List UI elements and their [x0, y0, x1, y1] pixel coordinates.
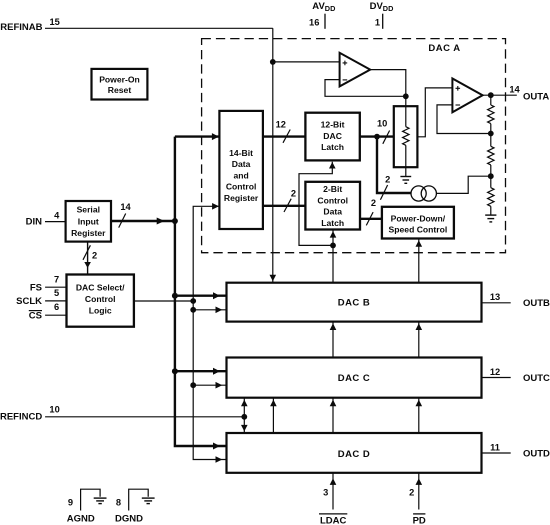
svg-text:DIN: DIN	[26, 217, 43, 228]
junction dot REFINCD node	[241, 414, 247, 420]
svg-text:7: 7	[54, 274, 59, 284]
wire serial register to select logic 2	[83, 242, 97, 275]
svg-text:AGND: AGND	[67, 513, 95, 524]
wire U1 output	[370, 70, 406, 97]
svg-text:10: 10	[49, 404, 59, 414]
wire REFINCD to DAC C	[241, 398, 248, 417]
junction dot current source tap	[488, 173, 494, 179]
node FS pin 7	[30, 274, 67, 293]
svg-text:DGND: DGND	[115, 513, 143, 524]
bus control latch to power-down pin 2	[360, 198, 382, 225]
node PD-bar pin 2	[409, 473, 426, 525]
node AGND pin 9	[67, 489, 107, 524]
svg-text:4: 4	[54, 211, 60, 221]
svg-text:2-Bit: 2-Bit	[323, 184, 342, 194]
svg-text:Data: Data	[232, 159, 251, 169]
bus data to DAC B	[175, 292, 227, 299]
svg-text:Reset: Reset	[108, 85, 132, 95]
junction dot LDAC node	[330, 243, 336, 249]
block 12-Bit DAC Latch	[305, 113, 359, 161]
svg-text:1: 1	[375, 18, 380, 28]
wire PD stub B to C	[416, 322, 423, 358]
node SCLK pin 5	[16, 288, 66, 307]
svg-text:3: 3	[323, 488, 328, 498]
svg-text:10: 10	[377, 119, 387, 129]
junction dot select node	[190, 298, 196, 304]
svg-text:16: 16	[309, 18, 319, 28]
svg-text:Control: Control	[317, 195, 348, 205]
junction dot node REFA	[270, 59, 276, 65]
block DAC D	[227, 433, 482, 473]
svg-text:14-Bit: 14-Bit	[229, 148, 253, 158]
svg-text:14: 14	[120, 202, 131, 212]
svg-text:and: and	[233, 170, 248, 180]
svg-text:OUTB: OUTB	[523, 298, 550, 309]
wire U2 noninverting input from R1 tap	[417, 88, 452, 137]
power pin AVDD 16	[309, 1, 335, 29]
op-amp U1 reference buffer	[340, 53, 371, 87]
wire U2 inverting feedback	[437, 105, 491, 134]
bus 12-bit register to DAC latch	[263, 120, 306, 143]
block Power-On Reset	[92, 69, 148, 100]
bus DAC latch to resistor string pin 10	[360, 119, 394, 144]
svg-text:OUTA: OUTA	[523, 92, 549, 103]
node OUTA pin 14	[509, 84, 549, 102]
junction dot U1 output node	[403, 93, 409, 99]
bus 2-bit register to control latch	[263, 189, 306, 213]
svg-text:SCLK: SCLK	[16, 296, 42, 307]
ground below ladder	[485, 215, 496, 222]
node OUTB pin 13	[482, 292, 550, 309]
bus main data vertical	[175, 137, 227, 450]
wire select to DAC B	[193, 307, 226, 314]
svg-text:11: 11	[490, 442, 500, 452]
resistor R2 ladder top	[488, 95, 494, 133]
ground below R1	[400, 167, 411, 183]
node REFINCD pin 10	[0, 404, 244, 422]
wire select logic output	[134, 300, 193, 302]
wire select vertical	[193, 301, 226, 463]
bus latch node to current source	[377, 137, 411, 200]
bus data to 14-bit register	[175, 133, 220, 140]
svg-text:Register: Register	[71, 228, 106, 238]
svg-text:DAC Select/: DAC Select/	[76, 282, 125, 292]
svg-text:14: 14	[509, 84, 520, 94]
svg-text:DAC B: DAC B	[338, 298, 371, 309]
svg-text:12-Bit: 12-Bit	[321, 119, 345, 129]
node DIN pin 4	[26, 211, 66, 228]
svg-text:Logic: Logic	[89, 305, 112, 315]
wire U1 noninverting input	[273, 61, 340, 63]
block DAC Select Control Logic	[67, 275, 134, 327]
node OUTC pin 12	[482, 367, 550, 384]
op-amp U2 output buffer	[452, 79, 482, 113]
junction dot select node C	[190, 382, 196, 388]
svg-text:2: 2	[92, 250, 97, 260]
svg-text:DAC D: DAC D	[338, 449, 371, 460]
wire select to DAC C	[193, 382, 226, 389]
svg-text:DAC A: DAC A	[428, 43, 460, 54]
svg-text:DAC: DAC	[323, 131, 342, 141]
node LDAC-bar pin 3	[319, 473, 347, 525]
svg-text:Power-Down/: Power-Down/	[391, 214, 446, 224]
svg-text:OUTD: OUTD	[523, 448, 550, 459]
svg-text:9: 9	[68, 498, 73, 508]
node DGND pin 8	[115, 489, 155, 524]
junction dot select node B	[190, 307, 196, 313]
wire LDAC down to DAC B	[332, 245, 334, 282]
wire select to 14-bit register	[193, 203, 219, 301]
svg-text:2: 2	[409, 488, 414, 498]
svg-text:OUTC: OUTC	[523, 373, 550, 384]
resistor R4 ladder bottom	[488, 176, 494, 215]
svg-text:FS: FS	[30, 283, 42, 294]
block 14-Bit Data and Control Register	[219, 111, 263, 229]
block 2-Bit Control Data Latch	[305, 182, 360, 230]
svg-text:Speed Control: Speed Control	[389, 224, 448, 234]
svg-text:12: 12	[490, 367, 500, 377]
svg-text:2: 2	[291, 189, 296, 199]
block Power-Down Speed Control	[382, 207, 454, 239]
power pin DVDD 1	[370, 1, 394, 29]
wire U1 feedback	[325, 80, 406, 97]
svg-text:Latch: Latch	[321, 142, 344, 152]
wire current source to output ladder	[436, 176, 490, 193]
wire LDAC stub C to D	[330, 398, 337, 433]
junction dot feedback tap	[488, 131, 494, 137]
svg-text:8: 8	[116, 498, 121, 508]
junction dot node 10	[374, 134, 380, 140]
node REFINAB pin 15	[0, 17, 273, 33]
bus serial register output 14	[111, 202, 175, 228]
svg-text:PD: PD	[413, 515, 426, 525]
wire PD stub C to D	[416, 398, 423, 433]
svg-text:DAC C: DAC C	[338, 373, 371, 384]
junction dot U2 output	[488, 92, 494, 98]
svg-text:Serial: Serial	[77, 205, 100, 215]
block Serial Input Register	[66, 201, 111, 242]
wire ref stub C to D	[270, 398, 277, 433]
svg-text:LDAC: LDAC	[320, 515, 347, 525]
wire LDAC stub B to C	[330, 322, 337, 358]
svg-text:Latch: Latch	[321, 218, 344, 228]
svg-text:6: 6	[54, 302, 59, 312]
svg-text:5: 5	[54, 288, 59, 298]
wire U2 output to OUTA	[483, 94, 517, 96]
svg-text:12: 12	[276, 120, 286, 130]
wire LDAC load loop	[299, 162, 336, 246]
svg-text:Control: Control	[85, 294, 116, 304]
current source symbol	[411, 186, 436, 201]
wire REFINAB vertical to DAC B	[270, 28, 277, 282]
node CS-bar pin 6	[29, 302, 67, 322]
resistor R3 ladder middle	[488, 134, 494, 177]
junction dot data node C	[172, 368, 178, 374]
svg-text:REFINAB: REFINAB	[0, 22, 42, 33]
svg-text:Control: Control	[226, 182, 257, 192]
svg-text:Input: Input	[78, 217, 99, 227]
block DAC B	[227, 283, 482, 322]
wire REFINCD to DAC D	[241, 417, 248, 433]
svg-text:13: 13	[490, 292, 500, 302]
svg-text:Data: Data	[323, 207, 342, 217]
dashed boundary DAC A block	[202, 39, 506, 253]
block DAC C	[227, 358, 482, 398]
wire PD up to power-down block	[416, 239, 423, 283]
junction dot data node B	[172, 293, 178, 299]
svg-text:REFINCD: REFINCD	[0, 412, 42, 423]
node OUTD pin 11	[482, 442, 550, 459]
junction dot serial bus node	[172, 218, 178, 224]
resistor string block R1	[394, 96, 418, 167]
svg-text:CS: CS	[29, 311, 42, 322]
svg-text:2: 2	[371, 198, 376, 208]
svg-text:Register: Register	[224, 193, 259, 203]
bus data to DAC C	[175, 368, 227, 375]
svg-text:2: 2	[385, 175, 390, 185]
svg-text:15: 15	[50, 17, 60, 27]
svg-text:Power-On: Power-On	[99, 74, 140, 84]
